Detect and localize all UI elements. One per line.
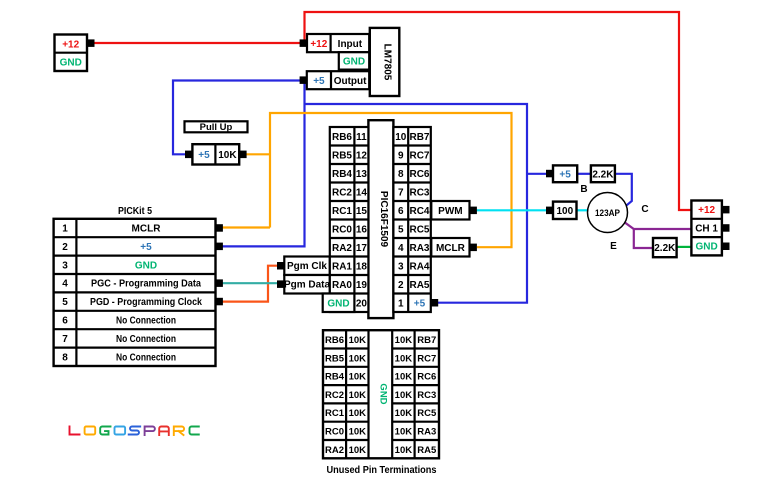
connector J2 PICkit table xyxy=(54,219,216,366)
pin connector PWM xyxy=(470,207,477,215)
wire cyan 100 ohm to transistor base lead xyxy=(577,209,589,211)
svg-text:Input: Input xyxy=(338,39,363,50)
svg-text:PWM: PWM xyxy=(438,206,462,217)
pin connector IC pin1 +5 xyxy=(431,299,438,307)
label box Pgm Data xyxy=(284,275,331,294)
transistor Q1 123AP xyxy=(588,193,628,233)
svg-text:+5: +5 xyxy=(198,150,210,161)
IC U1 right pin grid xyxy=(393,127,430,312)
svg-text:GND: GND xyxy=(343,57,365,68)
svg-text:MCLR: MCLR xyxy=(132,224,162,235)
label B base xyxy=(580,184,587,195)
connector J2 PICkit 5 title xyxy=(118,206,152,217)
svg-text:8: 8 xyxy=(398,169,404,180)
svg-text:RA4: RA4 xyxy=(409,262,429,273)
svg-text:10K: 10K xyxy=(349,353,367,364)
svg-text:RC0: RC0 xyxy=(332,225,352,236)
svg-text:3: 3 xyxy=(398,262,404,273)
svg-text:+12: +12 xyxy=(62,39,79,50)
svg-text:Unused Pin Terminations: Unused Pin Terminations xyxy=(327,465,437,476)
pin connector PICkit pin5 xyxy=(216,298,223,306)
supply box +5 at transistor xyxy=(553,165,577,182)
wire teal PICkit pin4 PGC to Pgm Data xyxy=(217,282,278,284)
label box Pull Up xyxy=(185,121,248,133)
svg-text:RC4: RC4 xyxy=(409,206,429,217)
svg-text:Output: Output xyxy=(334,76,367,87)
svg-text:LM7805: LM7805 xyxy=(382,44,393,81)
svg-text:10K: 10K xyxy=(395,353,413,364)
regulator U2 LM7805 input cells xyxy=(307,34,369,52)
wire blue between +5 box and 2.2K base resistor xyxy=(577,173,591,175)
pin connector R1 left xyxy=(185,151,192,159)
svg-text:RA5: RA5 xyxy=(409,280,429,291)
label box Pgm Clk xyxy=(284,257,330,276)
wire orange PICkit pin1 MCLR to net xyxy=(217,226,270,228)
svg-text:+5: +5 xyxy=(140,242,152,253)
svg-text:RC7: RC7 xyxy=(417,353,436,364)
svg-text:+5: +5 xyxy=(559,169,571,180)
svg-text:4: 4 xyxy=(62,279,68,290)
svg-text:15: 15 xyxy=(356,206,368,217)
svg-text:11: 11 xyxy=(356,132,367,143)
svg-text:RC5: RC5 xyxy=(409,225,429,236)
svg-text:GND: GND xyxy=(377,383,388,404)
svg-text:1: 1 xyxy=(62,224,68,235)
svg-text:10K: 10K xyxy=(349,390,367,401)
output header J3 +12/CH1/GND xyxy=(691,201,722,256)
svg-text:RB7: RB7 xyxy=(417,335,436,346)
IC U1 left pin grid xyxy=(330,127,369,312)
svg-text:RA5: RA5 xyxy=(417,445,437,456)
svg-text:2.2K: 2.2K xyxy=(654,243,676,254)
svg-text:RB4: RB4 xyxy=(325,372,345,383)
wire orangered PICkit pin5 PGD to Pgm Clk xyxy=(217,266,278,302)
logo LOGOSPARC xyxy=(70,427,199,436)
IC U1 pin 20 GND cell xyxy=(323,294,355,313)
svg-text:RC6: RC6 xyxy=(409,169,429,180)
resistor R3 100 xyxy=(553,202,577,219)
svg-text:6: 6 xyxy=(62,316,68,327)
wire cyan PWM to 100 ohm resistor xyxy=(477,209,547,211)
svg-text:CH 1: CH 1 xyxy=(695,223,718,234)
svg-text:Pull Up: Pull Up xyxy=(200,122,233,133)
resistor R1 pull-up +5/10K xyxy=(192,144,239,164)
svg-text:+5: +5 xyxy=(414,299,426,310)
wire purple transistor emitter to CH 1 xyxy=(623,221,692,229)
svg-text:GND: GND xyxy=(135,260,157,271)
wire blue 2.2K to transistor base xyxy=(615,174,632,209)
svg-text:+12: +12 xyxy=(698,205,715,216)
svg-text:12: 12 xyxy=(356,151,368,162)
svg-text:10K: 10K xyxy=(395,390,413,401)
svg-text:RC2: RC2 xyxy=(332,188,352,199)
regulator U2 body LM7805 xyxy=(370,28,400,96)
pin connector regulator output xyxy=(300,76,308,84)
pin connector PICkit pin1 xyxy=(216,224,223,232)
svg-text:9: 9 xyxy=(398,151,404,162)
svg-text:10K: 10K xyxy=(349,445,367,456)
svg-text:20: 20 xyxy=(356,299,368,310)
regulator U2 output cells xyxy=(307,71,369,89)
svg-text:7: 7 xyxy=(398,188,404,199)
caption Unused Pin Terminations xyxy=(327,465,437,476)
svg-text:E: E xyxy=(610,241,617,252)
svg-text:RB6: RB6 xyxy=(332,132,352,143)
svg-text:10K: 10K xyxy=(395,372,413,383)
svg-text:GND: GND xyxy=(695,242,717,253)
svg-text:RA0: RA0 xyxy=(332,280,352,291)
svg-text:No Connection: No Connection xyxy=(116,334,176,345)
resistor R2 2.2K base xyxy=(591,165,615,182)
label box PWM on RC4 xyxy=(431,201,469,220)
svg-text:+5: +5 xyxy=(313,76,325,87)
svg-text:10K: 10K xyxy=(395,445,413,456)
label C collector xyxy=(641,204,648,215)
svg-text:18: 18 xyxy=(356,262,368,273)
wire +5 blue regulator output to pull-up resistor xyxy=(173,81,301,155)
svg-text:16: 16 xyxy=(356,225,368,236)
wire +5 blue across top to right bus xyxy=(305,104,528,303)
svg-text:3: 3 xyxy=(62,260,68,271)
pin connector PICkit pin2 xyxy=(216,243,223,251)
svg-text:10K: 10K xyxy=(395,408,413,419)
svg-text:RB4: RB4 xyxy=(332,169,352,180)
svg-text:8: 8 xyxy=(62,352,68,363)
svg-text:14: 14 xyxy=(356,188,368,199)
svg-text:RB5: RB5 xyxy=(332,151,352,162)
wire purple branch down to 2.2K emitter resistor xyxy=(634,229,653,248)
power source header J1 +12/GND xyxy=(55,35,88,72)
label box MCLR on RA3 xyxy=(431,238,469,257)
svg-text:10K: 10K xyxy=(349,427,367,438)
svg-text:5: 5 xyxy=(398,225,404,236)
svg-text:10K: 10K xyxy=(395,427,413,438)
svg-text:RC0: RC0 xyxy=(325,427,344,438)
svg-text:1: 1 xyxy=(398,299,404,310)
svg-text:100: 100 xyxy=(556,206,573,217)
pin connector Pgm Data xyxy=(277,280,284,288)
svg-text:PGD - Programming Clock: PGD - Programming Clock xyxy=(90,297,202,308)
IC U1 body PIC16F1509 xyxy=(368,120,393,318)
svg-text:RC5: RC5 xyxy=(417,408,437,419)
regulator U2 GND cell xyxy=(339,52,369,69)
svg-text:17: 17 xyxy=(356,243,368,254)
svg-text:10K: 10K xyxy=(395,335,413,346)
svg-text:RC1: RC1 xyxy=(325,408,345,419)
pin connector +5 transistor xyxy=(546,170,553,178)
pin connector regulator input xyxy=(300,39,308,47)
wire +12 red top loop to output header xyxy=(305,12,692,210)
svg-text:RA1: RA1 xyxy=(332,262,352,273)
svg-text:RA2: RA2 xyxy=(325,445,344,456)
svg-text:4: 4 xyxy=(398,243,404,254)
svg-text:RC3: RC3 xyxy=(409,188,429,199)
svg-text:Pgm Data: Pgm Data xyxy=(284,280,331,291)
wire +12 red from J1 to regulator input xyxy=(92,42,303,44)
svg-text:B: B xyxy=(580,184,587,195)
pin connector MCLR xyxy=(470,244,477,252)
wire orange MCLR net riser and run to chip MCLR xyxy=(270,113,512,247)
svg-text:C: C xyxy=(641,204,648,215)
svg-text:RC1: RC1 xyxy=(332,206,352,217)
svg-text:19: 19 xyxy=(356,280,368,291)
label E emitter xyxy=(610,241,617,252)
svg-text:10K: 10K xyxy=(218,150,237,161)
svg-text:PGC - Programming Data: PGC - Programming Data xyxy=(91,279,201,290)
svg-text:RA3: RA3 xyxy=(409,243,429,254)
svg-text:RC6: RC6 xyxy=(417,372,436,383)
svg-text:7: 7 xyxy=(62,334,68,345)
svg-text:6: 6 xyxy=(398,206,404,217)
svg-text:RB5: RB5 xyxy=(325,353,345,364)
svg-text:Pgm Clk: Pgm Clk xyxy=(287,261,327,272)
svg-text:2: 2 xyxy=(398,280,404,291)
pin connector PICkit pin4 xyxy=(216,279,223,287)
pin connector J1 +12 xyxy=(87,39,95,47)
svg-text:RA2: RA2 xyxy=(332,243,352,254)
wire orange pull-up 10K to MCLR net xyxy=(245,153,270,155)
svg-text:+12: +12 xyxy=(310,39,327,50)
svg-text:MCLR: MCLR xyxy=(436,243,466,254)
wire +5 blue regulator output down to PICkit pin 2 xyxy=(217,82,305,246)
svg-text:RC3: RC3 xyxy=(417,390,436,401)
svg-text:RC7: RC7 xyxy=(409,151,429,162)
svg-text:No Connection: No Connection xyxy=(116,316,176,327)
svg-text:RB7: RB7 xyxy=(409,132,429,143)
svg-text:RB6: RB6 xyxy=(325,335,344,346)
svg-text:No Connection: No Connection xyxy=(116,352,176,363)
svg-text:GND: GND xyxy=(60,58,82,69)
svg-text:10K: 10K xyxy=(349,335,367,346)
svg-text:2.2K: 2.2K xyxy=(592,169,614,180)
svg-text:10K: 10K xyxy=(349,408,367,419)
resistor R4 2.2K emitter xyxy=(653,238,677,257)
svg-text:RA3: RA3 xyxy=(417,427,436,438)
svg-text:5: 5 xyxy=(62,297,68,308)
svg-text:2: 2 xyxy=(62,242,68,253)
svg-text:PICKit 5: PICKit 5 xyxy=(118,206,152,217)
wire +5 blue branch to transistor base resistor xyxy=(527,173,547,175)
svg-text:10: 10 xyxy=(395,132,407,143)
pin connector J3 CH1 xyxy=(722,224,730,232)
pin connector J3 GND xyxy=(722,243,730,251)
pin connector Pgm Clk xyxy=(277,262,284,270)
unused pin termination table xyxy=(323,330,439,458)
svg-text:GND: GND xyxy=(327,299,349,310)
svg-text:123AP: 123AP xyxy=(595,208,621,219)
pin connector R1 right xyxy=(239,151,246,159)
svg-text:13: 13 xyxy=(356,169,368,180)
svg-text:RC2: RC2 xyxy=(325,390,344,401)
pin connector J3 +12 xyxy=(722,206,730,214)
wire green 2.2K to GND pin xyxy=(677,246,692,248)
svg-text:10K: 10K xyxy=(349,372,367,383)
svg-text:PIC16F1509: PIC16F1509 xyxy=(378,191,389,248)
pin connector 100 ohm xyxy=(546,207,553,215)
